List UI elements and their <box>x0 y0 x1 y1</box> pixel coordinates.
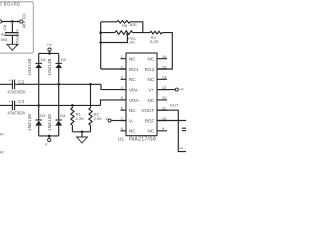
svg-text:NC: NC <box>129 77 136 82</box>
svg-text:D3: D3 <box>40 113 46 118</box>
diode D4 1N4148 <box>56 119 62 121</box>
svg-text:R8: R8 <box>122 23 128 28</box>
ground (input bias) <box>77 137 88 143</box>
node gnd tap <box>81 131 84 134</box>
svg-text:NC: NC <box>129 108 136 113</box>
terminal J1 48V input (left edge, clipped) <box>0 20 2 23</box>
terminal +V <box>48 48 51 51</box>
PSU board enclosure <box>0 2 33 53</box>
svg-text:C2: C2 <box>18 79 24 84</box>
svg-text:R6: R6 <box>1 33 6 37</box>
svg-text:+V: +V <box>47 42 52 47</box>
wire +V to diode rail <box>39 51 59 53</box>
svg-text:15: 15 <box>162 64 167 69</box>
svg-text:1N4148: 1N4148 <box>47 58 52 75</box>
svg-text:V-: V- <box>129 118 134 123</box>
svg-text:+: + <box>9 79 11 83</box>
svg-text:-V: -V <box>44 141 48 146</box>
wire R3 to pin 15 <box>157 33 172 69</box>
svg-text:VIN+: VIN+ <box>129 98 140 103</box>
resistor R3 8.2E <box>150 31 162 34</box>
svg-text:NC: NC <box>148 57 155 62</box>
svg-text:48V DC: 48V DC <box>22 13 27 28</box>
svg-text:NC: NC <box>148 77 155 82</box>
svg-text:2.2K: 2.2K <box>76 116 85 121</box>
ground (PSU) <box>7 44 18 50</box>
terminal +V (pin 13) <box>175 88 178 91</box>
svg-text:1N4148: 1N4148 <box>27 114 32 131</box>
wire -V rail <box>39 135 59 137</box>
svg-text:12: 12 <box>162 95 167 100</box>
svg-text:B BOARD: B BOARD <box>0 1 21 6</box>
wire pin 10 REF <box>157 120 186 122</box>
wire PR1 wiper to node A <box>101 34 128 42</box>
svg-text:NC: NC <box>129 57 136 62</box>
node A to PR1 <box>99 31 102 34</box>
terminal -V (pin 7) <box>108 119 111 122</box>
pin numbers right 16-9 <box>162 54 167 131</box>
op-amp U1 INA217 body <box>126 53 157 136</box>
wire D1 cathode lead <box>38 53 40 63</box>
resistor R2 2.2K <box>89 84 92 132</box>
svg-text:C8: C8 <box>2 24 7 30</box>
svg-text:470u/63V: 470u/63V <box>14 29 19 46</box>
wire bus2 step to pin 5 <box>101 100 127 106</box>
svg-text:D1: D1 <box>41 57 47 62</box>
node D1-D3 on bus2 <box>37 104 40 107</box>
capacitor C2 <box>0 83 101 85</box>
wire 48V feed <box>2 21 20 23</box>
svg-text:16: 16 <box>162 54 167 59</box>
node 48V junction <box>11 20 14 23</box>
resistor R8 <box>117 21 130 24</box>
svg-text:RG2: RG2 <box>145 67 155 72</box>
wire pin 13 to +V <box>157 89 175 91</box>
svg-text:1.6K: 1.6K <box>127 40 136 45</box>
svg-text:V+: V+ <box>148 88 154 93</box>
svg-text:NC: NC <box>148 98 155 103</box>
svg-text:D4: D4 <box>60 113 66 118</box>
potentiometer PR1 1.6K <box>101 31 133 35</box>
wire D2-D4 vertical <box>58 68 60 120</box>
capacitor C3 <box>0 104 101 106</box>
node +V tap <box>48 52 51 55</box>
wire pin 11 output <box>157 110 186 151</box>
svg-text:47uF/63V: 47uF/63V <box>7 111 25 116</box>
svg-text:2.2K: 2.2K <box>94 116 103 121</box>
svg-text:R4: R4 <box>178 145 184 150</box>
svg-text:1N4148: 1N4148 <box>27 58 32 75</box>
wire PR1 to R3 <box>133 32 151 34</box>
node R2 on bus1 <box>89 83 92 86</box>
wire -V to pin 7 <box>111 120 126 122</box>
wire C8 bottom lead <box>11 36 13 45</box>
node -V tap <box>48 135 51 138</box>
svg-text:RG1: RG1 <box>129 67 139 72</box>
wire -V stub <box>48 136 50 138</box>
node D2 on bus1 <box>57 83 60 86</box>
svg-text:9V: 9V <box>0 131 4 136</box>
wire C8 top lead <box>11 23 13 32</box>
svg-text:14: 14 <box>162 75 167 80</box>
wire D3 anode lead <box>38 126 40 136</box>
wiper PR1 arrow <box>126 32 129 35</box>
node wiper on A <box>99 41 102 44</box>
wire D4 anode lead <box>58 126 60 136</box>
diode D3 1N4148 <box>36 119 42 121</box>
svg-text:NC: NC <box>148 129 155 134</box>
svg-text:+V: +V <box>179 87 184 92</box>
svg-text:INA217/S8: INA217/S8 <box>129 136 156 142</box>
diode D2 1N4148 <box>56 62 62 64</box>
svg-text:+: + <box>9 100 11 104</box>
svg-text:VIN-: VIN- <box>129 88 139 93</box>
svg-text:8.2E: 8.2E <box>150 39 159 44</box>
resistor R1 2.2K <box>71 105 74 131</box>
wire node A vertical <box>100 22 102 69</box>
wire R8 right lead and drop <box>130 22 143 33</box>
pin names right column <box>141 57 155 134</box>
svg-text:REF: REF <box>145 118 155 123</box>
svg-text:U1: U1 <box>118 136 125 142</box>
svg-text:OUT: OUT <box>170 103 179 108</box>
svg-text:82E: 82E <box>130 22 137 27</box>
wire gnd stub <box>81 132 83 137</box>
svg-text:1N4148: 1N4148 <box>47 114 52 131</box>
svg-text:NC: NC <box>129 129 136 134</box>
svg-text:C3: C3 <box>18 99 24 104</box>
wire bus1 step to pin 4 <box>101 84 126 89</box>
capacitor C8 <box>5 33 19 36</box>
svg-text:9V: 9V <box>0 150 4 155</box>
wire D2 cathode lead <box>58 53 60 63</box>
pin stubs left <box>121 59 127 131</box>
terminal -V <box>48 138 51 141</box>
terminal 48V out <box>20 20 23 23</box>
svg-text:VOUT: VOUT <box>141 108 154 113</box>
node R1 on bus2 <box>71 104 74 107</box>
svg-text:6K8: 6K8 <box>1 38 8 42</box>
pin names left column <box>129 57 140 134</box>
diode D1 1N4148 <box>36 62 42 64</box>
wire D1-D3 vertical <box>38 68 40 120</box>
svg-text:D2: D2 <box>61 57 67 62</box>
pin numbers left 1-8 <box>121 54 124 131</box>
pin stubs right <box>157 59 167 131</box>
connector plates (clipped) <box>182 128 186 131</box>
wire R1-R2 bottom <box>72 131 90 133</box>
svg-text:47uF/63V: 47uF/63V <box>7 89 25 94</box>
wire node A to pin 2 <box>101 68 126 70</box>
wire R8 left lead <box>101 21 117 23</box>
